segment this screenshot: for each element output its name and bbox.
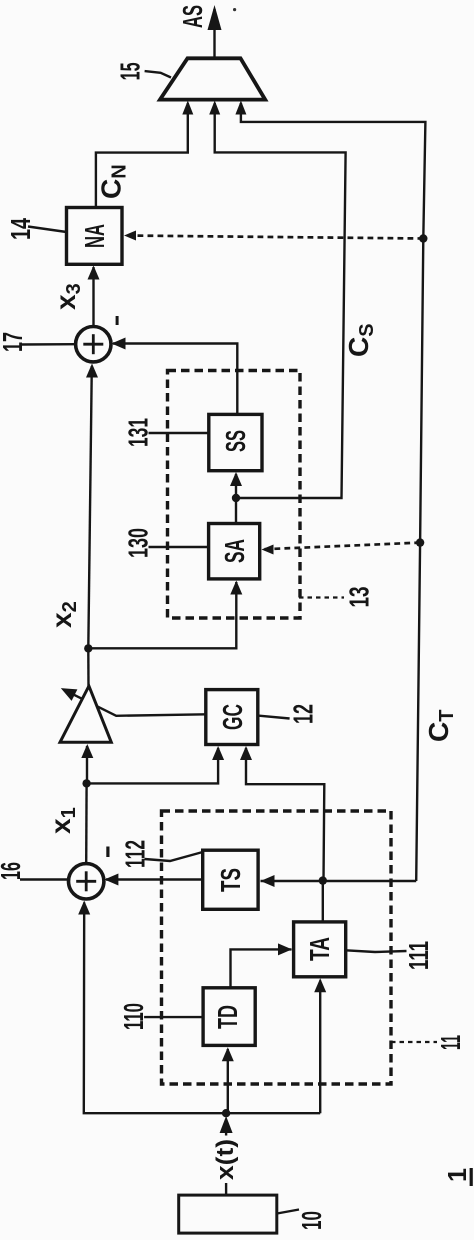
box SA 130 [209,524,260,579]
arrowhead into TS right [261,875,275,887]
minus sign adder17 [116,316,119,325]
amplifier triangle [60,686,111,742]
svg-text:131: 131 [123,418,154,447]
dashed leader 11 [391,1041,437,1043]
wire x2 to SA bottom [88,582,236,648]
arrowhead dashed into SA right [262,545,274,555]
svg-text:TD: TD [212,1005,243,1029]
leader 111 [346,950,407,952]
svg-text:TS: TS [215,868,246,892]
svg-text:17: 17 [0,332,28,352]
arrowhead into adder17 bottom [86,364,98,378]
figure number underline [470,1168,473,1186]
wire amp out to x2 [87,648,90,686]
leader 17 [22,343,76,346]
minus sign adder16 [106,847,109,858]
svg-text:NA: NA [79,224,110,248]
wire xt to TA bottom [319,981,321,1114]
leader 110 [144,1016,202,1018]
arrowhead into adder16 bottom [78,901,90,915]
wire xt to TD bottom [227,1049,229,1113]
wire CT riser to mixer input 3 [241,103,426,881]
box TS 112 [203,850,258,909]
variable gain arrow from GC [64,690,207,716]
svg-text:15: 15 [115,62,146,80]
mixer 15 trapezoid [160,58,265,99]
svg-text:12: 12 [288,704,319,724]
wire xt line to adder16 bottom [84,903,320,1114]
arrowhead into adder16 right [104,874,118,886]
wire adder17 output to NA [92,267,94,327]
arrowhead AS [208,5,222,30]
svg-text:10: 10 [296,1211,327,1230]
svg-text:GC: GC [217,704,248,730]
box GC 12 [206,690,258,745]
svg-text:13: 13 [344,587,375,608]
leader 10 [277,1210,299,1214]
svg-text:14: 14 [5,218,36,240]
box TA 111 [294,922,346,977]
adder 17 [76,327,111,362]
wire TA node to CT [261,880,417,882]
junction node xt [222,1109,230,1117]
wire NA to mixer input 1 [96,103,188,208]
wire x2 to adder17 bottom [88,366,92,648]
leader 16 [20,878,69,880]
junction node TA [319,876,327,884]
arrowheads into GC bottom [212,746,224,760]
svg-text:130: 130 [123,528,154,558]
wire x1 to GC left input [87,748,219,783]
svg-text:110: 110 [118,1003,149,1030]
wire box10 to xt junction [225,1129,227,1136]
wire AS output [213,9,215,58]
arrowhead into TA left [278,943,292,955]
ink speck [233,8,236,11]
junction node CN tap [419,234,427,242]
wire node up to GC right input [246,748,324,881]
adder 16 [69,864,104,899]
svg-text:111: 111 [403,941,434,970]
arrowhead variable gain [61,688,78,701]
arrowhead x(t) up [220,1116,233,1133]
wire adder16 output to x1 [85,783,88,863]
arrowhead into SA bottom [230,581,242,595]
svg-text:TA: TA [304,937,335,961]
svg-text:16: 16 [0,862,26,880]
svg-text:11: 11 [435,1035,466,1050]
wire x1 to amp input [86,746,88,783]
arrowhead into TA bottom [314,978,326,992]
box SS 131 [209,414,262,470]
leader 130 [149,546,209,548]
wire TD to TA [231,949,292,987]
wire SS to adder17 [113,344,237,415]
junction node x1 [82,779,90,787]
junction node x2 [84,644,92,652]
arrowhead into adder17 right [112,338,126,350]
arrowhead into amp bottom [81,744,93,758]
dashed box 11 [162,811,392,1084]
dashed box 13 [168,371,301,619]
dashed control from CT line to SA [264,543,421,550]
wire CS riser to mixer input 2 [215,103,346,498]
svg-text:SS: SS [220,430,251,452]
junction node SA tap [416,538,424,546]
svg-text:112: 112 [119,840,150,868]
svg-text:1: 1 [442,1168,472,1182]
leader 112 [145,852,203,861]
dashed control CN from CT line to NA [126,236,423,239]
svg-text:AS: AS [177,5,208,28]
arrowhead into NA bottom [88,266,100,280]
box 10 source [179,1195,277,1233]
arrowhead into TD bottom [222,1047,234,1061]
box NA 14 [67,208,123,265]
dashed leader 13 [299,596,344,598]
arrowhead CN into NA [124,231,136,241]
wire node to TA top [322,881,324,922]
wire SA to SS [235,474,237,524]
junction node SA-SS [232,494,240,502]
leader 15 [145,71,171,77]
wire TS to adder16 [106,878,203,880]
box TD 110 [203,988,255,1046]
leader 12 [258,716,290,719]
leader 14 [28,227,67,233]
svg-text:x(t): x(t) [212,1139,239,1180]
leader 131 [149,432,209,434]
svg-text:SA: SA [219,539,250,563]
arrowhead into SS bottom [230,472,242,486]
arrowheads into mixer [182,101,193,115]
